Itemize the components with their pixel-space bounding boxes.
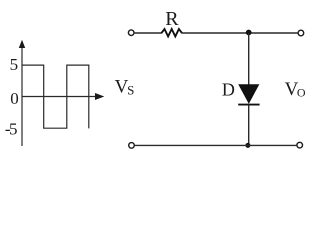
output terminal top-right [298, 30, 304, 36]
wire: resistor to top-right terminal [182, 32, 298, 34]
svg-text:D: D [222, 80, 235, 100]
resistor R [162, 29, 182, 36]
svg-text:-5: -5 [5, 119, 18, 138]
input terminal top-left [128, 30, 134, 36]
wire: diode cathode down to bottom junction [248, 105, 250, 146]
waveform x-axis [22, 96, 97, 98]
wire: bottom rail [135, 144, 297, 146]
output terminal bottom-right [297, 142, 303, 148]
wire: top-left terminal to resistor [135, 32, 162, 34]
waveform y-axis arrowhead [19, 40, 25, 48]
input terminal bottom-left [129, 143, 135, 149]
node: top junction [246, 30, 252, 36]
waveform y-axis [21, 45, 23, 146]
svg-text:5: 5 [10, 55, 19, 74]
diode D cathode bar [238, 104, 259, 106]
wire: top junction down to diode anode [248, 33, 250, 85]
svg-text:0: 0 [10, 89, 19, 108]
waveform x-axis arrowhead [95, 93, 104, 100]
svg-text:R: R [165, 8, 179, 30]
diode D (anode triangle) [239, 85, 259, 103]
node: bottom junction [245, 143, 250, 148]
square wave V_S trace [23, 65, 89, 128]
